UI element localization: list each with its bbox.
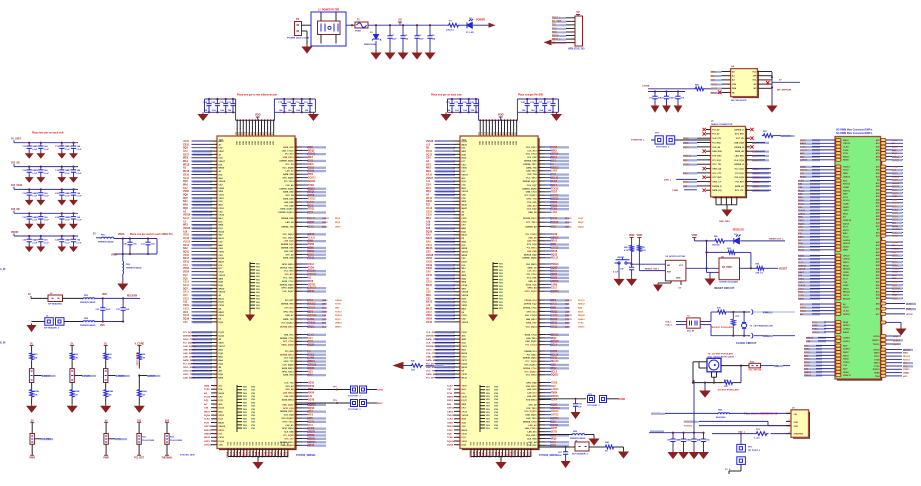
component bchain3 [137,434,141,445]
U3 bank capacitor C198 [544,98,546,100]
ground C25 [70,223,77,229]
svg-text:DM6: DM6 [798,227,803,229]
svg-text:SO-DIMM Mem Connector/200Pin: SO-DIMM Mem Connector/200Pin [836,132,873,135]
U3 bank capacitor C109 [526,98,528,100]
svg-text:71: 71 [457,393,459,395]
capacitor C61 [565,447,567,451]
svg-text:9: 9 [214,426,215,428]
svg-text:AD6: AD6 [551,364,556,367]
svg-text:BA13: BA13 [219,261,225,264]
svg-text:SYS_EN1: SYS_EN1 [735,134,745,136]
svg-text:GNT9: GNT9 [335,226,341,228]
svg-text:CS12: CS12 [551,288,557,290]
svg-text:IRQ2: IRQ2 [753,151,759,153]
svg-text:REQ10: REQ10 [578,315,586,317]
svg-text:SCL10: SCL10 [843,200,850,202]
svg-text:33R_1%: 33R_1% [756,273,764,275]
svg-text:CS18: CS18 [183,144,189,146]
capacitor C32 [102,298,104,306]
svg-text:REQ11: REQ11 [843,292,851,294]
svg-text:DDR0A_EN9: DDR0A_EN9 [524,160,537,163]
svg-text:71: 71 [214,218,216,220]
svg-text:WE12: WE12 [551,323,558,325]
svg-text:SATA_DQ5: SATA_DQ5 [526,283,538,286]
svg-text:CLK14: CLK14 [893,339,901,342]
capacitor C3 [416,24,418,26]
svg-text:DDR0A_DQ10: DDR0A_DQ10 [280,283,295,286]
svg-text:3: 3 [728,80,729,82]
svg-text:SDA12: SDA12 [843,242,851,245]
svg-text:VSS9: VSS9 [462,305,468,307]
ground C19 [37,199,44,205]
svg-text:A15: A15 [426,143,431,146]
svg-text:21: 21 [457,141,459,143]
svg-text:CLK_DQ8: CLK_DQ8 [284,415,295,417]
svg-text:5V: 5V [398,18,401,22]
ferrite bead FB1 [96,237,101,239]
svg-text:CKE13: CKE13 [565,300,573,302]
svg-text:CLOCK CIRCUIT: CLOCK CIRCUIT [736,341,757,345]
svg-text:46: 46 [214,274,216,277]
ground C23 [37,223,44,229]
J2 pin 2 SY_TMS [560,20,575,22]
svg-text:TDO14: TDO14 [308,270,316,273]
svg-text:VSS: VSS [499,305,504,307]
svg-text:DQ6: DQ6 [308,147,313,149]
oscillator Y4 body [707,358,721,372]
ground R44 [619,450,628,458]
svg-text:ODT9: ODT9 [308,421,315,423]
svg-text:DQS11: DQS11 [551,375,559,377]
svg-text:USB_RX1: USB_RX1 [284,334,294,336]
svg-text:CS13: CS13 [462,346,468,348]
svg-text:VSS4: VSS4 [219,187,225,190]
svg-text:71: 71 [214,349,216,351]
svg-text:SYS_D4: SYS_D4 [286,194,295,197]
svg-text:SER9: SER9 [800,166,806,168]
svg-text:REQ0: REQ0 [843,265,850,267]
svg-text:17: 17 [708,164,710,166]
svg-text:0.1uF: 0.1uF [65,220,71,222]
svg-text:BA18: BA18 [219,421,225,424]
svg-text:9: 9 [214,188,215,190]
svg-text:SCL0: SCL0 [804,362,810,364]
wire bchain3 top [138,423,140,434]
svg-text:DDR0B_DQ2: DDR0B_DQ2 [524,304,537,306]
svg-text:57: 57 [457,235,459,237]
svg-text:26: 26 [214,404,216,406]
svg-text:SIP HEADER2: SIP HEADER2 [48,303,63,306]
connector J9 spd [786,413,791,433]
svg-text:ODT11: ODT11 [892,291,900,293]
J7 left pin rows group 4 [798,254,851,300]
svg-text:GPIO_TX3: GPIO_TX3 [283,361,294,363]
svg-text:D15: D15 [426,228,431,230]
capacitor C2 [402,24,404,26]
svg-text:SCL4: SCL4 [843,236,849,239]
svg-text:LAN6: LAN6 [551,283,558,286]
svg-text:CAS10: CAS10 [843,142,851,145]
svg-text:41: 41 [457,224,459,227]
svg-text:CK14: CK14 [462,410,468,413]
svg-text:5: 5 [728,88,729,90]
U3 bank ground [552,112,561,120]
svg-text:VSS17: VSS17 [219,161,226,163]
svg-text:USB_RX14: USB_RX14 [283,156,295,159]
U4 pin left 6 [715,92,731,94]
svg-text:VSS2: VSS2 [183,235,190,237]
svg-text:TDO7: TDO7 [843,170,850,172]
svg-text:LAN12: LAN12 [843,328,851,331]
J6 pin left 11 [706,150,711,152]
svg-text:70: 70 [457,184,459,186]
svg-text:VCC_DQS13: VCC_DQS13 [524,195,537,197]
svg-text:WE18: WE18 [183,164,190,166]
svg-text:SMBJ5V0A: SMBJ5V0A [364,43,376,46]
testpoint TP7 TP8 pair [351,386,358,393]
svg-text:VSS: VSS [499,295,504,297]
svg-text:VDD: VDD [504,140,506,145]
J6 pin left 3 [706,133,711,135]
svg-text:MA4: MA4 [183,160,189,163]
svg-text:REQ7: REQ7 [578,222,585,224]
svg-text:18: 18 [746,164,748,166]
svg-text:LAN_EN2: LAN_EN2 [284,201,294,204]
svg-text:B_IN: B_IN [0,343,6,345]
svg-text:VREF11: VREF11 [872,340,881,342]
svg-text:R20B: R20B [34,391,40,393]
svg-text:21: 21 [708,173,710,175]
svg-text:VSS: VSS [486,396,491,398]
svg-text:VSS: VSS [494,425,499,427]
wire jumper row1 [31,297,48,299]
svg-text:SER3: SER3 [843,207,849,209]
svg-text:X1A_IN: X1A_IN [687,330,695,333]
U2 bottom ground arrow [254,461,263,469]
svg-text:VDD: VDD [246,140,248,145]
svg-text:DO NOT POPULATE: DO NOT POPULATE [712,326,733,329]
svg-text:VDD: VDD [513,140,515,145]
svg-text:VSS9: VSS9 [426,262,433,264]
ground C1 [386,50,395,59]
wire tap chain3 [108,375,116,377]
svg-text:VSS: VSS [486,393,491,395]
svg-text:GPIO12: GPIO12 [308,288,317,290]
svg-text:WE19: WE19 [219,168,226,170]
svg-text:GND: GND [794,426,799,428]
svg-text:RXD1: RXD1 [447,400,454,402]
svg-text:TDI: TDI [552,25,556,27]
svg-text:TDI9: TDI9 [308,212,314,214]
svg-text:CKE8: CKE8 [753,160,759,162]
svg-text:VSS: VSS [499,308,504,310]
J6 bottom pins [716,197,737,205]
svg-text:SDA2: SDA2 [892,215,899,218]
svg-text:CS11: CS11 [308,164,314,166]
svg-text:PCI3: PCI3 [308,281,314,283]
svg-text:TMS1: TMS1 [798,282,805,284]
svg-text:PCI_D0: PCI_D0 [712,134,720,136]
svg-text:77: 77 [214,422,216,424]
svg-text:SYS_CTL: SYS_CTL [735,190,745,192]
ground C4 [426,50,435,59]
wire TP to CON3 [367,389,377,391]
svg-text:WE5: WE5 [183,312,189,314]
svg-text:VDD: VDD [261,140,263,145]
capacitor C29 [72,235,74,237]
svg-text:USB_A7: USB_A7 [285,314,294,317]
svg-text:TMS4: TMS4 [551,201,558,204]
svg-text:VDDA: VDDA [118,233,125,236]
svg-text:S use header: S use header [135,352,137,366]
svg-text:SDA2: SDA2 [892,264,899,267]
svg-text:CLK_RX13: CLK_RX13 [526,147,537,149]
svg-text:CS12: CS12 [462,302,468,304]
svg-text:ODT0: ODT0 [892,173,899,175]
svg-text:24LC256-SOIC8: 24LC256-SOIC8 [731,99,747,102]
svg-text:10uF: 10uF [392,39,398,41]
svg-text:VDD: VDD [237,140,239,145]
svg-text:63: 63 [457,231,459,233]
svg-text:39: 39 [214,312,216,314]
svg-text:65: 65 [214,178,216,180]
svg-text:SCL2: SCL2 [322,308,328,310]
wire U5 to U6 [686,267,719,269]
svg-text:BA18: BA18 [462,366,468,369]
svg-text:DQS6: DQS6 [308,408,315,410]
svg-text:2 PG: 2 PG [115,439,121,441]
svg-text:SYS_DQS12: SYS_DQS12 [281,418,294,420]
svg-text:VSS: VSS [486,406,491,408]
svg-text:DQS15: DQS15 [903,349,911,351]
svg-text:X1A_O: X1A_O [665,324,672,327]
U2 right pin rows vref taps [281,217,341,228]
svg-text:DM6: DM6 [551,244,557,246]
svg-text:VDD: VDD [273,140,275,145]
svg-text:TCK0: TCK0 [447,437,453,439]
svg-text:DM9: DM9 [308,241,314,243]
svg-text:WE10: WE10 [874,353,881,355]
svg-text:MA17: MA17 [426,307,433,310]
svg-text:VSS: VSS [499,283,504,285]
svg-text:CLK_RX8: CLK_RX8 [527,438,537,440]
U2 left pin rows block B [183,331,226,379]
U6 bottom gnd [709,272,711,277]
svg-text:PCI1: PCI1 [308,425,314,427]
svg-text:GPIO_DQS5: GPIO_DQS5 [281,288,294,290]
svg-text:DQ5: DQ5 [183,278,188,280]
svg-text:MDI13: MDI13 [843,156,850,158]
svg-text:CK2: CK2 [183,151,188,153]
svg-text:DQ1: DQ1 [204,400,209,402]
svg-text:CS17: CS17 [462,356,468,358]
svg-text:SDA3: SDA3 [308,444,315,447]
svg-text:86: 86 [214,346,216,348]
svg-text:51: 51 [457,295,459,297]
svg-text:SATA_EN13: SATA_EN13 [282,367,295,370]
connector J7 SODIMM body [835,137,881,380]
svg-text:VSS: VSS [256,299,261,301]
svg-text:P1: P1 [296,17,300,21]
svg-text:LAN_EN9: LAN_EN9 [284,395,294,398]
svg-text:VSS: VSS [499,302,504,304]
svg-text:VSS: VSS [256,295,261,297]
svg-text:MA16: MA16 [183,170,190,173]
svg-text:SER10: SER10 [308,308,316,310]
svg-text:GPIO_DQ9: GPIO_DQ9 [283,408,294,410]
svg-text:DDR0A_EN9: DDR0A_EN9 [281,217,294,220]
svg-text:DM8: DM8 [551,308,557,310]
svg-text:VSS: VSS [486,422,491,424]
svg-text:VSS: VSS [100,325,105,327]
svg-text:PCI_EN10: PCI_EN10 [527,248,538,250]
svg-text:PCI_EN11: PCI_EN11 [527,354,538,356]
svg-text:USB13: USB13 [804,372,812,374]
svg-text:18: 18 [457,415,459,417]
svg-text:DDR0B_EN13: DDR0B_EN13 [280,327,294,329]
wire TP to CON4 [607,398,619,400]
resistor R50 pullup [694,87,705,91]
svg-text:SCL15: SCL15 [565,218,572,220]
svg-text:1K/1608: 1K/1608 [712,245,720,247]
svg-text:TXD10: TXD10 [843,362,850,364]
svg-text:21: 21 [457,258,459,260]
svg-text:5V: 5V [93,234,96,236]
J7 left rows group 7 [806,336,851,343]
wire led out [740,240,785,242]
svg-text:USB_DQS1: USB_DQS1 [282,404,294,406]
svg-text:TXD11: TXD11 [903,369,910,371]
J6 pin left 27 [697,185,711,187]
resistor R20 [30,352,34,361]
capacitor C18 [28,188,30,190]
svg-text:RXD2: RXD2 [804,359,811,361]
wire U3 ferrite row [538,434,572,436]
svg-text:79: 79 [457,288,459,290]
svg-text:71: 71 [214,171,216,173]
svg-text:TMS6: TMS6 [551,205,558,207]
svg-text:VSS: VSS [499,270,504,272]
svg-text:WE11: WE11 [204,411,211,413]
svg-text:LAN6: LAN6 [843,203,849,206]
capacitor C15 [40,166,42,168]
svg-text:U5 APX811-SOT143: U5 APX811-SOT143 [665,255,686,258]
svg-text:VSS: VSS [499,267,504,269]
svg-text:10uF: 10uF [106,309,112,311]
svg-text:55: 55 [214,389,216,391]
svg-text:SATA_CTL2: SATA_CTL2 [282,280,295,283]
svg-text:65: 65 [214,248,216,250]
svg-text:DQ12: DQ12 [426,154,433,156]
svg-text:MA10: MA10 [462,429,468,432]
svg-text:GNT5: GNT5 [843,288,850,290]
svg-text:PCI_RX0: PCI_RX0 [285,351,295,353]
svg-text:DM13: DM13 [843,262,850,264]
ground C18 [26,199,33,205]
svg-text:CAS14: CAS14 [335,299,343,302]
svg-text:VREF1: VREF1 [308,432,316,434]
ferrite bead FB9 [718,413,730,414]
svg-text:SYS_EN2: SYS_EN2 [712,155,722,157]
svg-text:SDA: SDA [732,87,737,90]
J6 pin left 25 [697,181,711,183]
svg-text:91: 91 [214,363,216,365]
svg-text:48: 48 [457,153,459,156]
svg-text:SER1: SER1 [804,349,810,351]
svg-text:VDD: VDD [637,233,643,237]
connector J2 ARM JTAG [575,16,583,46]
U2 bottom ground rail [228,456,288,458]
svg-text:PULLDOWN: PULLDOWN [142,440,155,442]
svg-text:73: 73 [214,158,216,160]
resistor R26B [137,388,141,398]
capacitor C25 [72,212,74,214]
svg-text:BA10: BA10 [462,234,468,237]
svg-text:10K: 10K [74,395,78,397]
svg-text:CLK2: CLK2 [204,419,210,421]
svg-text:SDA1: SDA1 [551,240,558,243]
svg-text:13: 13 [708,155,710,157]
wire 5V right [772,81,800,83]
wire chain1 bottom [31,398,33,404]
svg-text:SYSVSS_SEN: SYSVSS_SEN [180,455,195,457]
svg-text:DM12: DM12 [308,251,315,253]
svg-text:VCC_RX1: VCC_RX1 [712,177,722,179]
svg-text:GPIO9: GPIO9 [873,336,880,338]
svg-text:VSS: VSS [243,406,248,408]
J7 right rows group 5 [872,335,903,346]
U3 bottom ground rail [471,456,531,458]
svg-text:AD14: AD14 [892,261,898,264]
svg-text:TDI11: TDI11 [308,258,315,260]
power arrow 5V out [489,23,494,27]
wire rail 3V3_SB [14,166,78,168]
svg-text:GPIO9: GPIO9 [873,349,880,351]
svg-text:CAS1: CAS1 [843,209,850,212]
svg-text:CS6: CS6 [426,292,431,294]
svg-text:VREF13: VREF13 [683,155,692,157]
svg-text:27: 27 [214,241,216,243]
svg-text:TCK6: TCK6 [874,366,880,368]
svg-text:DQ11: DQ11 [219,302,225,304]
svg-text:WE7: WE7 [308,411,314,413]
svg-text:SATA_D0: SATA_D0 [527,266,537,269]
svg-text:LAN_TX13: LAN_TX13 [526,337,537,340]
svg-text:VDD: VDD [629,233,635,237]
ground C71 [663,104,670,112]
U2 right pin rows mid triple [280,299,343,329]
J6 pin left 23 [706,176,711,178]
svg-text:IRQ7: IRQ7 [843,213,849,215]
svg-text:VSS: VSS [256,308,261,310]
svg-text:FERRITE BEAD: FERRITE BEAD [80,324,96,327]
svg-text:VCC: VCC [752,71,757,73]
svg-text:USB_DQ15: USB_DQ15 [526,415,538,417]
svg-text:IRQ10: IRQ10 [798,190,805,192]
svg-text:VSS: VSS [486,402,491,404]
svg-text:XTAL1: XTAL1 [763,311,771,314]
svg-text:VSS11: VSS11 [462,251,469,253]
svg-text:PCI_RX7: PCI_RX7 [735,181,744,183]
svg-text:RXD15: RXD15 [873,369,881,371]
wire reset out [765,267,778,269]
svg-text:BA10: BA10 [798,236,804,239]
svg-text:21: 21 [214,168,216,170]
svg-text:TXD8: TXD8 [322,311,328,313]
svg-text:VSS: VSS [494,422,499,424]
svg-text:10K: 10K [141,395,145,397]
resistor R64 [756,266,766,270]
